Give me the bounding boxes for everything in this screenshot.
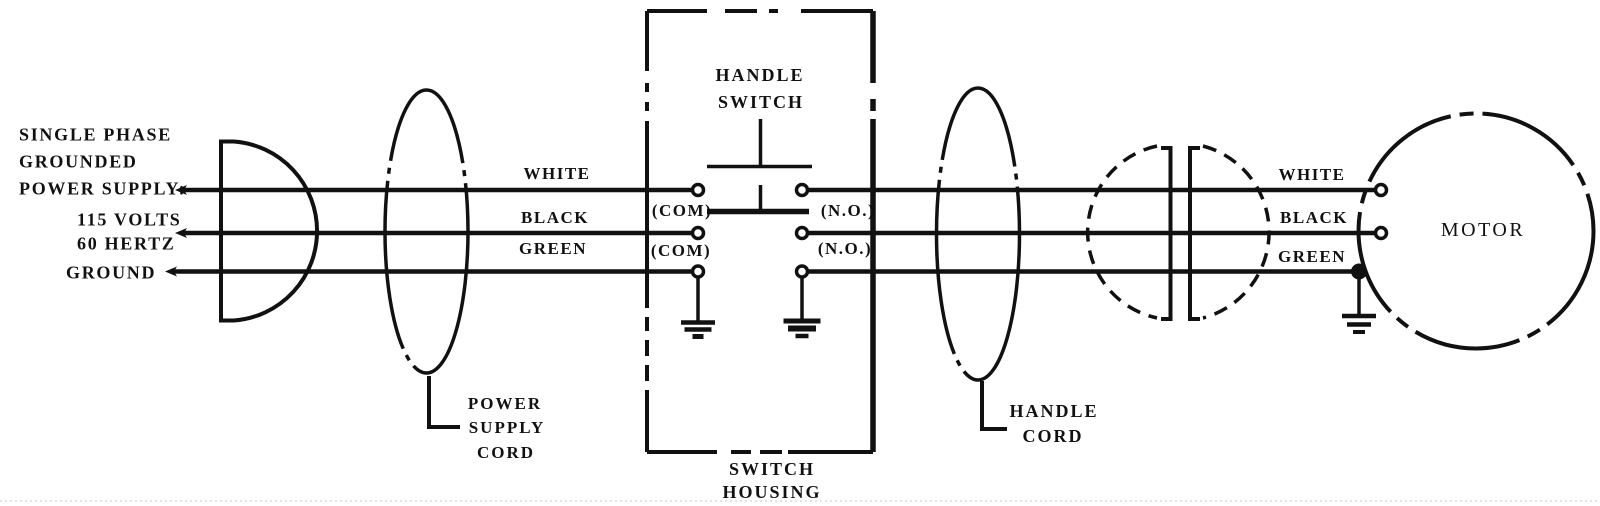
svg-text:SWITCH: SWITCH <box>718 92 804 112</box>
svg-text:SINGLE PHASE: SINGLE PHASE <box>19 125 172 145</box>
svg-text:(N.O.): (N.O.) <box>821 201 875 220</box>
svg-text:GROUND: GROUND <box>66 263 156 283</box>
svg-text:WHITE: WHITE <box>1278 165 1345 184</box>
svg-text:BLACK: BLACK <box>1280 208 1348 227</box>
svg-text:(COM): (COM) <box>652 201 712 220</box>
svg-text:CORD: CORD <box>1023 426 1084 446</box>
svg-text:POWER: POWER <box>468 394 542 413</box>
svg-text:60 HERTZ: 60 HERTZ <box>77 234 176 254</box>
svg-text:WHITE: WHITE <box>523 164 590 183</box>
svg-text:HANDLE: HANDLE <box>1009 401 1098 421</box>
svg-text:SWITCH: SWITCH <box>729 459 815 479</box>
svg-text:BLACK: BLACK <box>521 208 589 227</box>
svg-text:115 VOLTS: 115 VOLTS <box>77 210 182 230</box>
svg-text:SUPPLY: SUPPLY <box>469 418 546 437</box>
svg-text:HOUSING: HOUSING <box>722 482 821 502</box>
svg-text:CORD: CORD <box>477 443 535 462</box>
svg-text:GREEN: GREEN <box>1278 247 1346 266</box>
svg-text:GREEN: GREEN <box>519 239 587 258</box>
svg-text:(N.O.): (N.O.) <box>818 239 872 258</box>
svg-text:GROUNDED: GROUNDED <box>19 152 138 172</box>
svg-text:(COM): (COM) <box>651 241 711 260</box>
svg-text:MOTOR: MOTOR <box>1441 219 1525 241</box>
svg-text:HANDLE: HANDLE <box>715 65 804 85</box>
svg-text:POWER SUPPLY:: POWER SUPPLY: <box>19 179 186 199</box>
